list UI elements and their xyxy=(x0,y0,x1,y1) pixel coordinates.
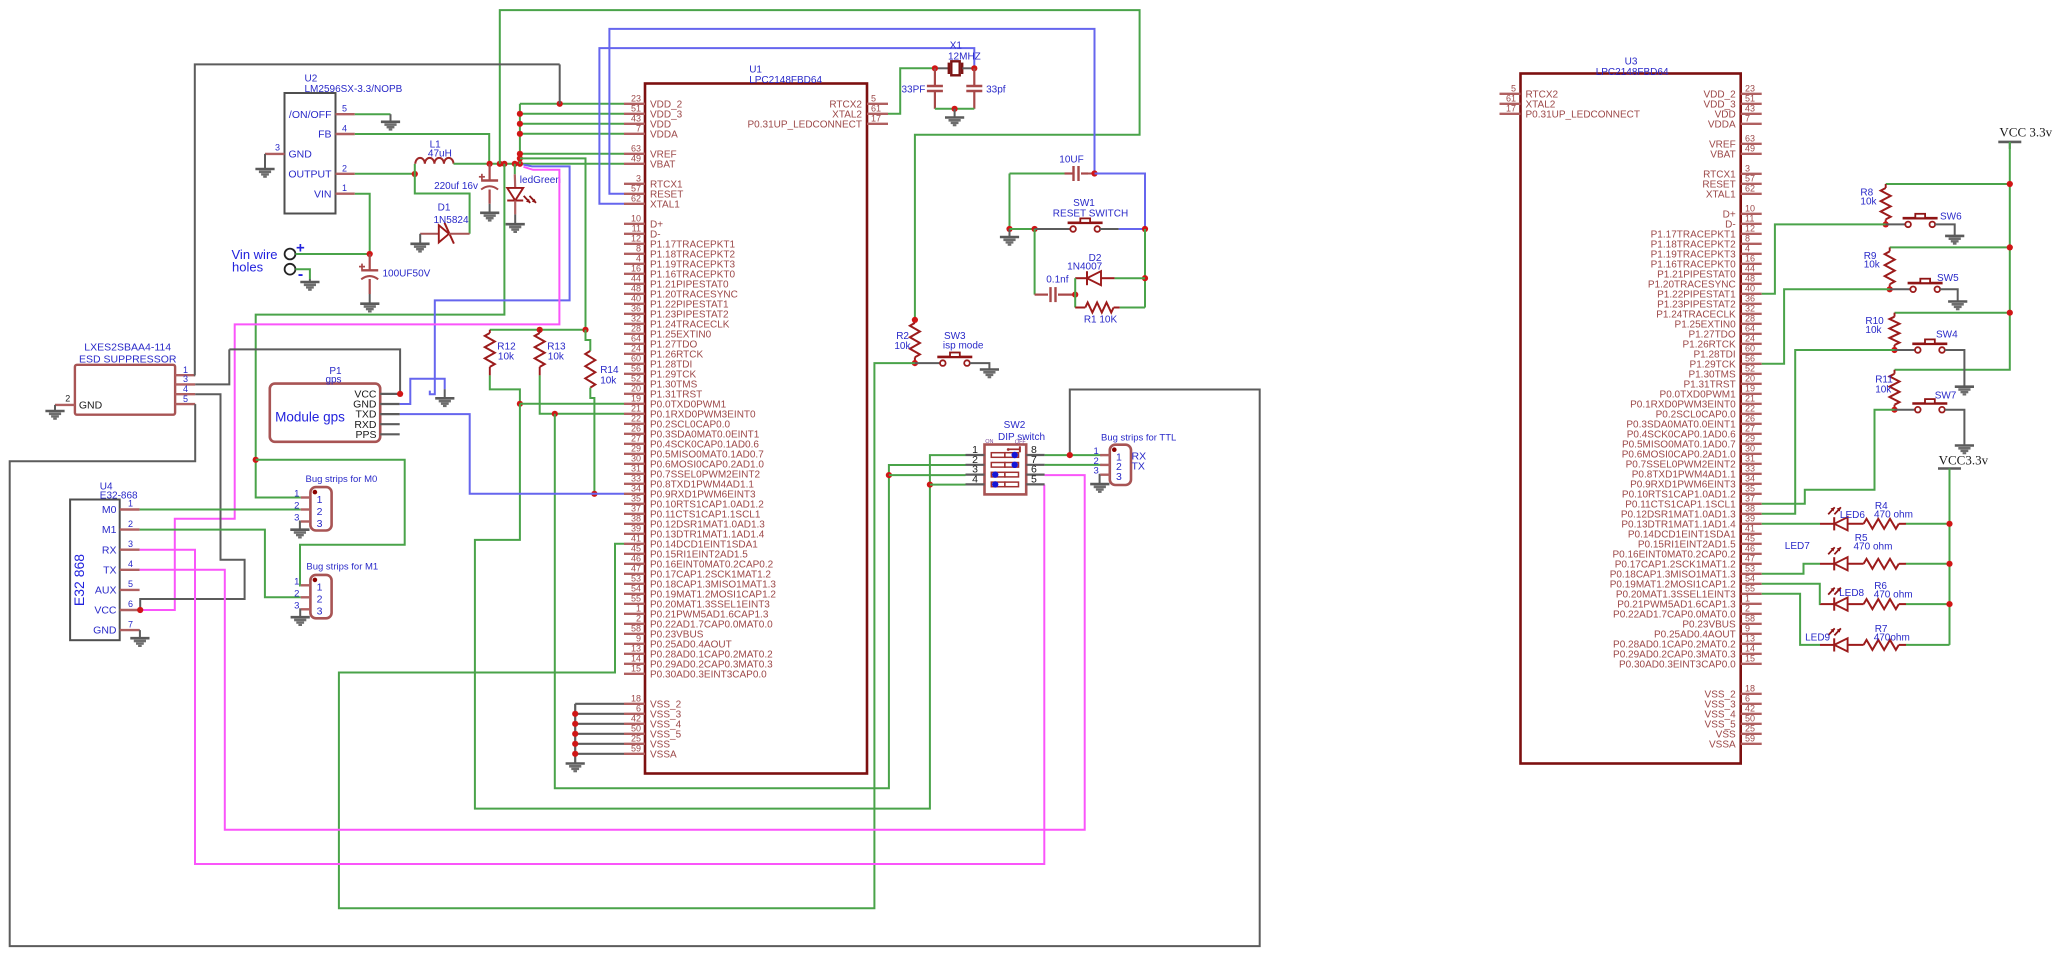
wire 220uf top xyxy=(489,164,491,181)
U3 pin 27 P0.4SCK0CAP0.1AD0.6 xyxy=(1741,433,1762,435)
junction VDD_3 xyxy=(517,111,523,117)
U1 pin 34 P0.9RXD1PWM6EINT3 xyxy=(624,493,645,495)
wire 220uf bottom xyxy=(489,190,491,204)
U3 pin 25 VSS xyxy=(1741,733,1762,735)
svg-text:47uH: 47uH xyxy=(428,149,452,160)
svg-text:220uf 16v: 220uf 16v xyxy=(434,181,478,192)
svg-text:42: 42 xyxy=(631,713,641,723)
U1 pin 61 XTAL2 xyxy=(867,113,888,115)
wire GPS GND stub xyxy=(444,389,446,398)
svg-text:Module gps: Module gps xyxy=(275,410,345,425)
ground M1 strip xyxy=(299,609,302,616)
svg-text:5: 5 xyxy=(1031,473,1037,485)
DIP SW2 left pin 2 xyxy=(966,464,985,466)
svg-text:P0.31UP_LEDCONNECT: P0.31UP_LEDCONNECT xyxy=(748,119,862,130)
svg-text:3: 3 xyxy=(636,173,641,183)
junction R9 bottom xyxy=(1887,286,1893,292)
svg-text:P0.30AD0.3EINT3CAP0.0: P0.30AD0.3EINT3CAP0.0 xyxy=(650,669,767,680)
wire DIP7 to TTL2 xyxy=(1045,464,1103,466)
svg-text:48: 48 xyxy=(1745,273,1755,283)
svg-text:VCC3.3v: VCC3.3v xyxy=(1939,452,1989,467)
svg-text:14: 14 xyxy=(631,653,641,663)
svg-text:ON: ON xyxy=(985,439,993,445)
svg-text:6: 6 xyxy=(128,599,133,609)
svg-text:28: 28 xyxy=(631,323,641,333)
U3 pin 7 VDDA xyxy=(1741,123,1762,125)
ground X1 xyxy=(954,109,956,117)
U1 pin 46 P0.16EINT0MAT0.2CAP0.2 xyxy=(624,563,645,565)
wire VDD bus vertical xyxy=(519,104,521,164)
GPS pin GND xyxy=(380,403,400,405)
svg-text:10k: 10k xyxy=(1864,260,1881,271)
svg-text:36: 36 xyxy=(631,303,641,313)
U3 pin 20 P1.31TRST xyxy=(1741,383,1762,385)
ground SW4 xyxy=(1955,385,1974,388)
svg-text:46: 46 xyxy=(1745,543,1755,553)
connector Bug strips for M0 xyxy=(310,487,331,530)
svg-text:63: 63 xyxy=(1745,133,1755,143)
wire DIP8 to TTL1 xyxy=(1045,454,1103,456)
wire P0.20 to LED9 xyxy=(1762,594,1820,645)
svg-text:2: 2 xyxy=(128,519,133,529)
svg-text:SW6: SW6 xyxy=(1940,211,1962,222)
U1 pin 27 P0.4SCK0CAP0.1AD0.6 xyxy=(624,443,645,445)
svg-text:18: 18 xyxy=(631,693,641,703)
svg-text:4: 4 xyxy=(972,473,978,485)
U3 pin 30 P0.6MOSI0CAP0.2AD1.0 xyxy=(1741,453,1762,455)
U3 pin 6 VSS_3 xyxy=(1741,703,1762,705)
svg-text:VCC 3.3v: VCC 3.3v xyxy=(1999,125,2052,140)
DIP switch SW2 body xyxy=(985,445,1027,495)
U1 pin 38 P0.12DSR1MAT1.0AD1.3 xyxy=(624,523,645,525)
U2 pin 1 VIN xyxy=(336,192,355,194)
svg-text:M0: M0 xyxy=(102,504,117,516)
svg-text:6: 6 xyxy=(636,703,641,713)
svg-text:FB: FB xyxy=(318,129,331,141)
svg-text:SW7: SW7 xyxy=(1935,390,1957,401)
svg-text:TX: TX xyxy=(1132,461,1145,473)
wire VDD xyxy=(520,123,624,125)
svg-text:E32 868: E32 868 xyxy=(71,554,87,606)
svg-text:22: 22 xyxy=(1745,403,1755,413)
svg-text:31: 31 xyxy=(631,463,641,473)
svg-text:XTAL1: XTAL1 xyxy=(1706,189,1736,200)
svg-text:60: 60 xyxy=(1745,343,1755,353)
wire SW1 gray left xyxy=(1035,228,1071,230)
U1 pin 43 VDD xyxy=(624,123,645,125)
U1 pin 5 RTCX2 xyxy=(867,103,888,105)
junction D2 right xyxy=(1142,275,1148,281)
svg-text:VIN: VIN xyxy=(314,188,332,200)
svg-text:10k: 10k xyxy=(1875,385,1892,396)
hole plus xyxy=(285,249,296,260)
svg-text:58: 58 xyxy=(631,623,641,633)
wire R1 right xyxy=(1120,307,1145,309)
svg-text:38: 38 xyxy=(631,513,641,523)
wire SW7 gnd xyxy=(1945,410,1965,445)
svg-text:9: 9 xyxy=(1745,623,1750,633)
U1 pin 39 P0.13DTR1MAT1.1AD1.4 xyxy=(624,533,645,535)
GPS pin VCC xyxy=(380,393,400,395)
svg-text:44: 44 xyxy=(1745,263,1755,273)
wire L1 out rail 3.3V xyxy=(454,163,625,165)
svg-text:32: 32 xyxy=(631,313,641,323)
svg-text:8: 8 xyxy=(636,243,641,253)
wire P0.11 to SW7 xyxy=(1762,410,1895,504)
wire 10UF to dot xyxy=(1086,173,1095,175)
wire 0.1nf drop xyxy=(1034,229,1036,295)
svg-text:470ohm: 470ohm xyxy=(1874,633,1910,644)
U1 pin 15 P0.30AD0.3EINT3CAP0.0 xyxy=(624,673,645,675)
svg-text:4: 4 xyxy=(183,384,188,394)
capacitor 0.1nf xyxy=(1035,294,1048,296)
wire GPS TXD blue xyxy=(400,414,624,494)
U3 pin 3 RTCX1 xyxy=(1741,173,1762,175)
wire ESD1 up xyxy=(195,64,560,375)
U1 pin 16 P1.16TRACEPKT0 xyxy=(624,273,645,275)
IC U1 LPC2148FBD64 box xyxy=(645,84,867,774)
wire P1.22 to SW6 xyxy=(1762,224,1886,293)
svg-text:41: 41 xyxy=(631,533,641,543)
svg-text:M1: M1 xyxy=(102,524,117,536)
U1 pin 48 P1.20TRACESYNC xyxy=(624,293,645,295)
U1 pin 35 P0.10RTS1CAP1.0AD1.2 xyxy=(624,503,645,505)
svg-text:LED9: LED9 xyxy=(1805,632,1830,643)
U3 pin 13 P0.28AD0.1CAP0.2MAT0.2 xyxy=(1741,643,1762,645)
svg-text:2: 2 xyxy=(1745,603,1750,613)
ground GPS xyxy=(435,397,454,400)
resistor R9 10k xyxy=(1889,247,1891,251)
svg-text:10k: 10k xyxy=(1865,325,1882,336)
svg-text:TX: TX xyxy=(103,564,116,576)
wire M1 xyxy=(140,530,301,598)
svg-text:LPC2148FBD64: LPC2148FBD64 xyxy=(749,75,822,86)
junction R14 top xyxy=(582,327,588,333)
wire R2 to P0.14 loop xyxy=(339,363,915,908)
svg-text:7: 7 xyxy=(1745,113,1750,123)
svg-text:15: 15 xyxy=(631,663,641,673)
wire R8 top xyxy=(1886,183,2010,185)
U3 pin 41 P0.14DCD1EINT1SDA1 xyxy=(1741,533,1762,535)
svg-text:VSSA: VSSA xyxy=(1709,739,1736,750)
wire R2 bottom lead xyxy=(914,357,916,363)
svg-text:43: 43 xyxy=(1745,103,1755,113)
U3 pin 32 P1.24TRACECLK xyxy=(1741,313,1762,315)
wire ESD3 xyxy=(195,349,229,384)
wire blue stub net xyxy=(430,165,570,395)
U3 pin 60 P1.28TDI xyxy=(1741,353,1762,355)
U1 pin 14 P0.29AD0.2CAP0.3MAT0.3 xyxy=(624,663,645,665)
LED ledGreen xyxy=(507,188,523,201)
U1 pin 31 P0.7SSEL0PWM2EINT2 xyxy=(624,473,645,475)
svg-text:61: 61 xyxy=(871,103,881,113)
junction TTL RX xyxy=(1067,452,1073,458)
svg-text:54: 54 xyxy=(1745,573,1755,583)
junction VSS 713.8 xyxy=(572,711,578,717)
DIP SW2 left pin 1 xyxy=(966,454,985,456)
U1 pin 50 VSS_5 xyxy=(624,733,645,735)
svg-text:40: 40 xyxy=(631,293,641,303)
svg-text:1N4007: 1N4007 xyxy=(1067,262,1102,273)
svg-text:LPC2148FBD64: LPC2148FBD64 xyxy=(1596,67,1669,78)
wire SW6 gray xyxy=(1886,223,1906,225)
wire ledGreen bottom xyxy=(514,201,516,215)
svg-text:3: 3 xyxy=(275,143,280,153)
svg-text:41: 41 xyxy=(1745,523,1755,533)
ground TTL strip xyxy=(1099,475,1102,484)
junction ledGreen xyxy=(512,161,518,167)
ground SW3 xyxy=(980,368,999,371)
svg-text:37: 37 xyxy=(1745,493,1755,503)
svg-text:16: 16 xyxy=(631,263,641,273)
svg-text:2: 2 xyxy=(317,506,323,518)
U3 pin 45 P0.15RI1EINT2AD1.5 xyxy=(1741,543,1762,545)
svg-text:56: 56 xyxy=(631,363,641,373)
U3 pin 47 P0.17CAP1.2SCK1MAT1.2 xyxy=(1741,563,1762,565)
IC U4 E32-868 box xyxy=(70,500,120,641)
diode D2 1N4007 xyxy=(1075,277,1087,279)
svg-text:3: 3 xyxy=(1094,466,1099,477)
U1 pin 55 P0.20MAT1.3SSEL1EINT3 xyxy=(624,603,645,605)
svg-text:27: 27 xyxy=(1745,423,1755,433)
wire 3.3V to M0 strip xyxy=(256,460,301,498)
GPS pin PPS xyxy=(380,433,400,435)
svg-text:VCC: VCC xyxy=(94,605,117,617)
resistor R12 10k xyxy=(489,330,491,333)
svg-text:10: 10 xyxy=(631,213,641,223)
svg-text:3: 3 xyxy=(317,518,323,530)
wire 10UF down-left xyxy=(1009,174,1011,230)
svg-text:XTAL1: XTAL1 xyxy=(650,199,680,210)
E32 pin 2 M1 xyxy=(120,528,140,530)
wire ESD5 frame xyxy=(10,390,1260,947)
U3 pin 54 P0.19MAT1.2MOSI1CAP1.2 xyxy=(1741,583,1762,585)
svg-text:3: 3 xyxy=(294,600,299,611)
svg-text:21: 21 xyxy=(1745,393,1755,403)
junction GPS VCC xyxy=(397,391,403,397)
U3 pin 29 P0.5MISO0MAT0.1AD0.7 xyxy=(1741,443,1762,445)
U3 pin 18 VSS_2 xyxy=(1741,693,1762,695)
U3 pin 16 P1.16TRACEPKT0 xyxy=(1741,263,1762,265)
svg-text:7: 7 xyxy=(636,123,641,133)
ground minus xyxy=(309,279,311,282)
junction Vin xyxy=(367,251,373,257)
U1 pin 53 P0.18CAP1.3MISO1MAT1.3 xyxy=(624,583,645,585)
svg-text:VSSA: VSSA xyxy=(650,749,677,760)
U1 pin 24 P1.26RTCK xyxy=(624,353,645,355)
U3 pin 56 P1.29TCK xyxy=(1741,363,1762,365)
svg-text:PPS: PPS xyxy=(355,429,376,441)
wire 100UF gnd xyxy=(369,294,371,303)
wire GPS VCC gray up xyxy=(229,349,400,394)
svg-text:48: 48 xyxy=(631,283,641,293)
U3 pin 37 P0.11CTS1CAP1.1SCL1 xyxy=(1741,503,1762,505)
svg-text:59: 59 xyxy=(1745,733,1755,743)
svg-text:28: 28 xyxy=(1745,313,1755,323)
svg-text:470 ohm: 470 ohm xyxy=(1874,590,1913,601)
U1 pin 54 P0.19MAT1.2MOSI1CAP1.2 xyxy=(624,593,645,595)
svg-text:SW5: SW5 xyxy=(1937,273,1959,284)
U3 pin 1 P0.21PWM5AD1.6CAP1.3 xyxy=(1741,603,1762,605)
U3 pin 28 P1.25EXTIN0 xyxy=(1741,323,1762,325)
svg-text:39: 39 xyxy=(1745,513,1755,523)
wire R6 to VCC xyxy=(1906,603,1950,605)
U3 pin 39 P0.13DTR1MAT1.1AD1.4 xyxy=(1741,523,1762,525)
wire P0.0 xyxy=(520,403,624,405)
wire VIN xyxy=(355,194,370,254)
U1 pin 9 P0.25AD0.4AOUT xyxy=(624,643,645,645)
svg-text:13: 13 xyxy=(631,643,641,653)
U3 pin 24 P1.26RTCK xyxy=(1741,343,1762,345)
capacitor 10UF xyxy=(1065,172,1074,174)
resistor R13 10k xyxy=(539,330,541,333)
junction DIP pin3 xyxy=(886,472,892,478)
wire bus to R-rail xyxy=(520,158,586,329)
ESD pin 2 GND xyxy=(55,404,75,406)
svg-text:54: 54 xyxy=(631,583,641,593)
U3 pin 44 P1.21PIPESTAT0 xyxy=(1741,273,1762,275)
connector Bug strips for TTL xyxy=(1110,445,1131,485)
wire R9 top xyxy=(1890,246,2010,248)
svg-text:42: 42 xyxy=(1745,703,1755,713)
wire M0 xyxy=(140,509,301,511)
wire SW3 right gnd xyxy=(970,363,990,369)
wire X1 gnd rail xyxy=(935,108,974,110)
E32 pin 4 TX xyxy=(120,569,140,571)
junction E32 VCC xyxy=(137,607,143,613)
svg-text:23: 23 xyxy=(1745,83,1755,93)
U1 pin 28 P1.25EXTIN0 xyxy=(624,333,645,335)
U1 pin 30 P0.6MOSI0CAP0.2AD1.0 xyxy=(624,463,645,465)
svg-text:23: 23 xyxy=(631,93,641,103)
U1 pin 57 RESET xyxy=(624,193,645,195)
svg-text:30: 30 xyxy=(1745,443,1755,453)
resistor R8 10k xyxy=(1885,184,1887,188)
svg-text:2: 2 xyxy=(342,163,347,173)
svg-text:2: 2 xyxy=(294,501,299,512)
wire SW4 gray xyxy=(1895,349,1916,351)
resistor R6 470 ohm xyxy=(1848,603,1864,605)
U1 pin 20 P1.31TRST xyxy=(624,393,645,395)
ground SW7 xyxy=(1955,444,1974,447)
junction VDD bus x520 xyxy=(517,161,523,167)
capacitor 33PF left xyxy=(934,68,936,86)
svg-text:33: 33 xyxy=(631,473,641,483)
svg-text:44: 44 xyxy=(631,273,641,283)
U3 pin 50 VSS_5 xyxy=(1741,723,1762,725)
svg-text:10UF: 10UF xyxy=(1059,155,1083,166)
junction rail 499.8 xyxy=(497,161,503,167)
U1 pin 37 P0.11CTS1CAP1.1SCL1 xyxy=(624,513,645,515)
DIP SW2 right pin 8 xyxy=(1026,454,1044,456)
junction LED6 VCC xyxy=(1946,521,1952,527)
svg-text:6: 6 xyxy=(1745,693,1750,703)
wire VCC vertical xyxy=(1895,142,2010,370)
switch SW5 xyxy=(1910,287,1916,293)
svg-text:GND: GND xyxy=(93,625,117,637)
E32 pin 5 AUX xyxy=(120,589,140,591)
DIP SW2 left pin 3 xyxy=(966,474,985,476)
U3 pin 12 P1.17TRACEPKT1 xyxy=(1741,233,1762,235)
module P1 gps box xyxy=(270,384,380,442)
svg-text:3: 3 xyxy=(1116,471,1122,483)
junction X1 gnd xyxy=(952,106,958,112)
svg-text:11: 11 xyxy=(1745,213,1754,223)
wire R10 top xyxy=(1895,312,2010,314)
wire P0.12 to SW4 xyxy=(1762,350,1895,514)
svg-text:25: 25 xyxy=(631,733,641,743)
svg-text:62: 62 xyxy=(1745,183,1755,193)
U2 pin 4 FB xyxy=(336,133,355,135)
junction VDD_2 gray xyxy=(557,101,563,107)
svg-text:45: 45 xyxy=(1745,533,1755,543)
svg-text:29: 29 xyxy=(1745,433,1755,443)
svg-text:RESET SWITCH: RESET SWITCH xyxy=(1053,208,1128,219)
wire R4 to VCC xyxy=(1906,523,1950,525)
DIP SW2 right pin 5 xyxy=(1026,483,1044,485)
U3 pin 21 P0.1RXD0PWM3EINT0 xyxy=(1741,403,1762,405)
svg-text:gps: gps xyxy=(325,375,341,386)
svg-text:60: 60 xyxy=(631,353,641,363)
svg-text:LXES2SBAA4-114: LXES2SBAA4-114 xyxy=(84,342,171,354)
E32 pin 3 RX xyxy=(120,549,140,551)
ground ESD xyxy=(54,405,56,411)
wire GPS GND blue xyxy=(400,379,445,404)
U3 pin 34 P0.9RXD1PWM6EINT3 xyxy=(1741,483,1762,485)
wire P1.29 to SW5 xyxy=(1762,289,1890,364)
svg-text:59: 59 xyxy=(631,743,641,753)
U3 pin 52 P1.30TMS xyxy=(1741,373,1762,375)
svg-text:33: 33 xyxy=(1745,463,1755,473)
svg-text:4: 4 xyxy=(342,124,347,134)
svg-text:470 ohm: 470 ohm xyxy=(1874,510,1913,521)
DIP SW2 right pin 7 xyxy=(1026,464,1044,466)
wire SW7 gray xyxy=(1895,409,1916,411)
switch SW7 xyxy=(1915,407,1921,413)
wire FB xyxy=(355,134,489,164)
svg-text:SW4: SW4 xyxy=(1936,330,1958,341)
U3 pin 62 XTAL1 xyxy=(1741,193,1762,195)
U1 pin 56 P1.29TCK xyxy=(624,373,645,375)
svg-text:35: 35 xyxy=(1745,483,1755,493)
svg-text:100UF50V: 100UF50V xyxy=(383,268,431,279)
U3 pin 2 P0.22AD1.7CAP0.0MAT0.0 xyxy=(1741,613,1762,615)
svg-text:19: 19 xyxy=(631,393,641,403)
junction R8 bottom xyxy=(1883,221,1889,227)
wire blue 10UF to SW1 xyxy=(1095,174,1146,230)
resistor R10 10k xyxy=(1894,313,1896,317)
junction X1 right xyxy=(971,65,977,71)
U1 pin 22 P0.2SCL0CAP0.0 xyxy=(624,423,645,425)
GPS pin TXD xyxy=(380,413,400,415)
IC ESD suppressor box xyxy=(75,365,175,415)
resistor R7 470ohm xyxy=(1848,644,1864,646)
svg-text:OUTPUT: OUTPUT xyxy=(288,168,332,180)
ground 100UF xyxy=(360,302,379,305)
U3 pin 53 P0.18CAP1.3MISO1MAT1.3 xyxy=(1741,573,1762,575)
svg-text:25: 25 xyxy=(1745,723,1755,733)
LED LED7 xyxy=(1820,563,1834,565)
U1 pin 12 P1.17TRACEPKT1 xyxy=(624,243,645,245)
U3 pin 48 P1.20TRACESYNC xyxy=(1741,283,1762,285)
svg-text:64: 64 xyxy=(631,333,641,343)
connector Bug strips for M1 xyxy=(310,575,331,618)
svg-text:2: 2 xyxy=(294,588,299,599)
ESD pin 1 xyxy=(175,374,195,376)
U1 pin 36 P1.23PIPESTAT2 xyxy=(624,313,645,315)
U2 pin 5 /ON/OFF xyxy=(336,113,355,115)
U3 pin 26 P0.3SDA0MAT0.0EINT1 xyxy=(1741,423,1762,425)
